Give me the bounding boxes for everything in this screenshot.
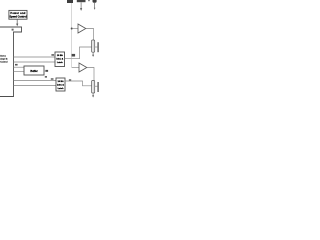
sensor blob on feedback line	[72, 54, 76, 57]
wire node A to op-amp A1 input	[72, 28, 78, 30]
op-amp A2	[79, 63, 87, 72]
svg-text:10 Bit: 10 Bit	[57, 54, 63, 57]
bus width tick before DAC2	[51, 78, 54, 79]
wire motor M2 right terminal to stop bar	[95, 85, 98, 87]
sensor blob feeding feedback line (top, cropped)	[67, 0, 73, 3]
op-amp A1	[78, 24, 86, 33]
controller text	[0, 55, 8, 64]
box U1 power and speed control	[9, 10, 27, 19]
pot R2 body (top right, cropped)	[92, 0, 96, 10]
junction node A	[71, 28, 73, 30]
svg-text:Buffer: Buffer	[30, 70, 37, 73]
stop bar 2	[97, 82, 98, 92]
svg-text:Control: Control	[0, 61, 8, 64]
svg-text:Latch: Latch	[58, 87, 64, 90]
pot R1 wiper arrow	[80, 2, 82, 11]
wire bus line 1 to DAC1	[14, 56, 56, 58]
feedback sense line (vertical)	[71, 3, 73, 68]
wire DAC1 output to motor M1 left terminal	[65, 47, 92, 59]
fragment at top edge	[88, 0, 90, 1]
box U3 buffer	[24, 66, 44, 75]
label tick inside controller tab	[12, 29, 14, 31]
svg-text:10 Bit: 10 Bit	[58, 80, 64, 83]
motor M1 (actuator coil)	[92, 40, 95, 52]
label tick at buffer output	[46, 70, 49, 72]
pen arrow below motor M1	[92, 52, 94, 57]
pot R1 body (top, cropped)	[77, 0, 86, 2]
wire arrow from power box to controller	[16, 19, 18, 26]
wire buffer output stub	[44, 70, 46, 72]
stop bar 1	[97, 42, 98, 52]
svg-text:DAC &: DAC &	[56, 58, 63, 61]
box U2 servo controller (cropped at left)	[0, 27, 22, 97]
label tick below buffer	[45, 76, 47, 78]
wire motor M1 right terminal to stop bar	[95, 46, 98, 48]
motor M2 (actuator coil)	[92, 81, 95, 94]
wire bus line 3 to buffer	[14, 66, 25, 68]
wire DAC2 output to motor M2 left terminal	[65, 81, 92, 86]
wire bus line 6 to DAC2	[14, 85, 57, 87]
label tick above DAC2 output	[69, 79, 71, 80]
bus width tick before DAC1	[51, 54, 54, 56]
wire bus line 4 to buffer	[14, 71, 25, 73]
box U4 DAC1 10-bit DAC and latch	[55, 52, 65, 67]
svg-text:DAC &: DAC &	[57, 83, 64, 86]
wire bus line 5 to DAC2	[14, 80, 57, 82]
svg-text:Latch: Latch	[57, 61, 63, 64]
svg-text:Servo: Servo	[0, 55, 7, 58]
wire op-amp A1 output to motor M1	[86, 29, 94, 41]
wire bus line 2 to DAC1	[14, 61, 56, 63]
wire to op-amp A2 input	[72, 67, 79, 69]
svg-text:Ampl &: Ampl &	[0, 58, 8, 61]
pen arrow below motor M2	[92, 93, 94, 98]
wire op-amp A2 output to motor M2	[87, 68, 94, 81]
box U5 DAC2 10-bit DAC and latch	[56, 78, 65, 91]
svg-text:Speed Control: Speed Control	[9, 15, 26, 18]
bus width tick near controller	[15, 64, 18, 66]
